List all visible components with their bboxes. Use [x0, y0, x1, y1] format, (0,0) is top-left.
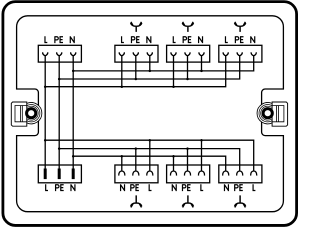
- terminal clamp top x=45.2: [43, 52, 48, 62]
- junction dot 2: [58, 78, 61, 81]
- bottom connector X6 box: [115, 165, 158, 183]
- terminal clamp top x=59.2: [57, 52, 62, 62]
- junction dot 12: [72, 155, 75, 158]
- wire: bottom L bus: [45, 140, 254, 165]
- wire: PE feed vertical: [58, 62, 60, 169]
- terminal hook bottom x=253.7: [251, 164, 257, 175]
- wire: stub N bottom c2: [121, 156, 123, 165]
- terminal hook bottom x=173.5: [170, 164, 176, 175]
- terminal hook bottom x=149.8: [147, 164, 153, 175]
- wire: stub L top c3: [173, 62, 175, 87]
- label "L PE N" top c4: [225, 36, 227, 42]
- bottom connector X5 box: [38, 165, 81, 183]
- terminal hook bottom x=239.7: [237, 164, 243, 175]
- junction dot 8: [186, 78, 189, 81]
- wire: N feed vertical: [72, 62, 74, 169]
- wire: stub N top c2: [149, 62, 151, 71]
- label "L PE N" top c1: [45, 36, 47, 42]
- wire: top PE bus: [59, 62, 240, 79]
- label "L PE N" bottom input: [46, 184, 48, 190]
- wire: top N bus: [73, 62, 254, 71]
- junction dot 6: [149, 70, 152, 73]
- terminal clamp top x=225.7: [223, 52, 228, 62]
- top connector X2 box: [115, 45, 158, 62]
- terminal clamp top x=201.5: [199, 52, 204, 62]
- junction dot 11: [58, 147, 61, 150]
- junction dot 3: [72, 70, 75, 73]
- wire: stub PE bottom c3: [187, 149, 189, 165]
- wire: stub PE top c2: [135, 62, 137, 79]
- junction dot 14: [135, 147, 138, 150]
- terminal hook bottom x=187.5: [184, 164, 190, 175]
- lamp outlet symbol bottom c3: [182, 195, 193, 207]
- terminal clamp top x=173.5: [171, 52, 176, 62]
- bottom connector X7 box: [167, 165, 210, 183]
- wire: stub PE bottom c2: [135, 149, 137, 165]
- wire: top L bus: [45, 62, 226, 87]
- wire: stub PE top c3: [187, 62, 189, 79]
- terminal clamp top x=239.7: [237, 52, 242, 62]
- label "N PE L" bottom c2: [120, 184, 124, 191]
- top connector X3 box: [167, 45, 210, 62]
- junction dot 15: [121, 155, 124, 158]
- wire: stub L bottom c2: [149, 140, 151, 165]
- junction dot 1: [44, 85, 47, 88]
- junction dot 9: [200, 70, 203, 73]
- terminal clamp top x=253.7: [251, 52, 256, 62]
- junction dot 13: [149, 139, 152, 142]
- input pin x=45.2: [44, 169, 47, 180]
- wire: stub N bottom c3: [173, 156, 175, 165]
- terminal hook bottom x=121.8: [119, 164, 125, 175]
- enclosure inner wall with latch notches: [17, 16, 284, 212]
- junction dot 17: [186, 147, 189, 150]
- lamp outlet symbol top c4: [235, 22, 246, 32]
- wire: L feed vertical: [44, 62, 46, 169]
- terminal hook bottom x=225.7: [223, 164, 229, 175]
- lamp outlet symbol bottom c4: [235, 195, 246, 207]
- junction dot 10: [44, 139, 47, 142]
- top connector X1 box: [38, 45, 81, 62]
- lamp outlet symbol bottom c2: [131, 195, 142, 207]
- junction dot 4: [121, 85, 124, 88]
- top connector X4 box: [219, 45, 262, 62]
- wire: stub N top c3: [201, 62, 203, 71]
- junction dot 5: [135, 78, 138, 81]
- wire: bottom N bus: [73, 156, 226, 165]
- junction dot 18: [172, 155, 175, 158]
- lamp outlet symbol top c3: [182, 22, 193, 32]
- terminal clamp top x=121.8: [119, 52, 124, 62]
- label "N PE L" bottom c4: [224, 184, 228, 191]
- wire: bottom PE bus: [59, 149, 240, 165]
- label "L PE N" top c3: [173, 36, 175, 42]
- wire: stub L bottom c3: [201, 140, 203, 165]
- junction dot 16: [200, 139, 203, 142]
- terminal hook bottom x=201.5: [198, 164, 204, 175]
- input pin x=73.2: [72, 169, 75, 180]
- bottom connector X8 box: [219, 165, 262, 183]
- terminal clamp top x=73.2: [71, 52, 76, 62]
- right latch: [257, 102, 288, 126]
- wire: stub L top c2: [121, 62, 123, 87]
- terminal clamp top x=149.8: [147, 52, 152, 62]
- input pin x=59.2: [58, 169, 61, 180]
- label "N PE L" bottom c3: [172, 184, 176, 191]
- label "L PE N" top c2: [122, 36, 124, 42]
- junction dot 7: [172, 85, 175, 88]
- terminal clamp top x=187.5: [185, 52, 190, 62]
- terminal hook bottom x=135.8: [133, 164, 139, 175]
- left latch: [11, 102, 42, 126]
- terminal clamp top x=135.8: [133, 52, 138, 62]
- lamp outlet symbol top c2: [131, 22, 142, 32]
